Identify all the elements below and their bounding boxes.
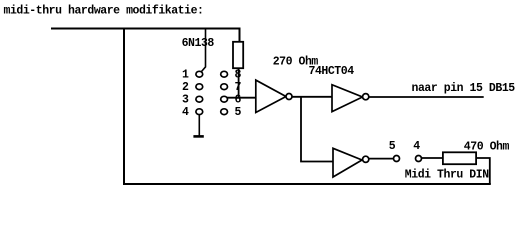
svg-text:3: 3 xyxy=(182,94,189,107)
inverter U1C bubble xyxy=(363,156,369,162)
pad pin 3 xyxy=(196,96,203,102)
svg-text:4: 4 xyxy=(413,140,420,153)
inverter U1A bubble xyxy=(286,94,292,100)
inverter U1B bubble xyxy=(363,94,369,100)
inverter U1C triangle xyxy=(333,148,362,177)
pad 5 terminal xyxy=(394,156,400,162)
pad pin 2 xyxy=(196,84,203,90)
svg-text:5: 5 xyxy=(389,140,396,153)
pad pin 7 xyxy=(221,84,228,90)
ground xyxy=(193,135,203,138)
pad 4 terminal xyxy=(416,156,422,162)
wire long left vertical (top rail to bottom rail) xyxy=(123,28,125,186)
pad pin 5 xyxy=(221,109,228,115)
svg-text:Midi Thru DIN: Midi Thru DIN xyxy=(405,168,489,181)
svg-text:1: 1 xyxy=(182,69,189,82)
svg-text:midi-thru hardware modifikatie: midi-thru hardware modifikatie: xyxy=(4,5,204,18)
wire lead from top rail to pin 1 of 6N138 xyxy=(202,28,206,72)
pad pin 4 xyxy=(196,109,203,115)
svg-text:74HCT04: 74HCT04 xyxy=(309,65,355,78)
wire resistor 470 to bottom rail xyxy=(476,158,490,184)
wire U1C output to pad 5 xyxy=(369,158,394,160)
node junction branch down to U1C xyxy=(301,97,333,162)
svg-text:2: 2 xyxy=(182,81,189,94)
svg-text:7: 7 xyxy=(235,81,242,94)
wire U1B output to DB15 xyxy=(369,96,484,98)
inverter U1B triangle xyxy=(332,85,363,112)
pad pin 6 xyxy=(221,96,228,102)
wire pad 4 to resistor 470 xyxy=(421,157,443,159)
svg-text:6: 6 xyxy=(235,94,242,107)
svg-text:4: 4 xyxy=(182,106,189,119)
resistor R 470 Ohm xyxy=(443,152,476,164)
svg-text:6N138: 6N138 xyxy=(182,37,215,50)
svg-text:naar pin 15 DB15: naar pin 15 DB15 xyxy=(412,82,516,95)
svg-text:8: 8 xyxy=(235,69,242,82)
wire pin 6 to inverter U1A input xyxy=(222,97,256,99)
pad pin 1 xyxy=(196,71,203,77)
pad pin 8 xyxy=(221,71,228,77)
ground lead from pin 4 xyxy=(198,115,200,136)
inverter U1A triangle xyxy=(256,80,286,112)
svg-text:470 Ohm: 470 Ohm xyxy=(464,140,510,153)
wire top supply rail xyxy=(51,29,240,42)
wire U1A output to U1B input xyxy=(292,96,332,98)
svg-text:5: 5 xyxy=(235,106,242,119)
wire bottom ground rail xyxy=(123,183,491,185)
wire resistor bottom lead down to pin 6 net xyxy=(238,68,240,98)
resistor R 270 Ohm xyxy=(233,42,243,68)
